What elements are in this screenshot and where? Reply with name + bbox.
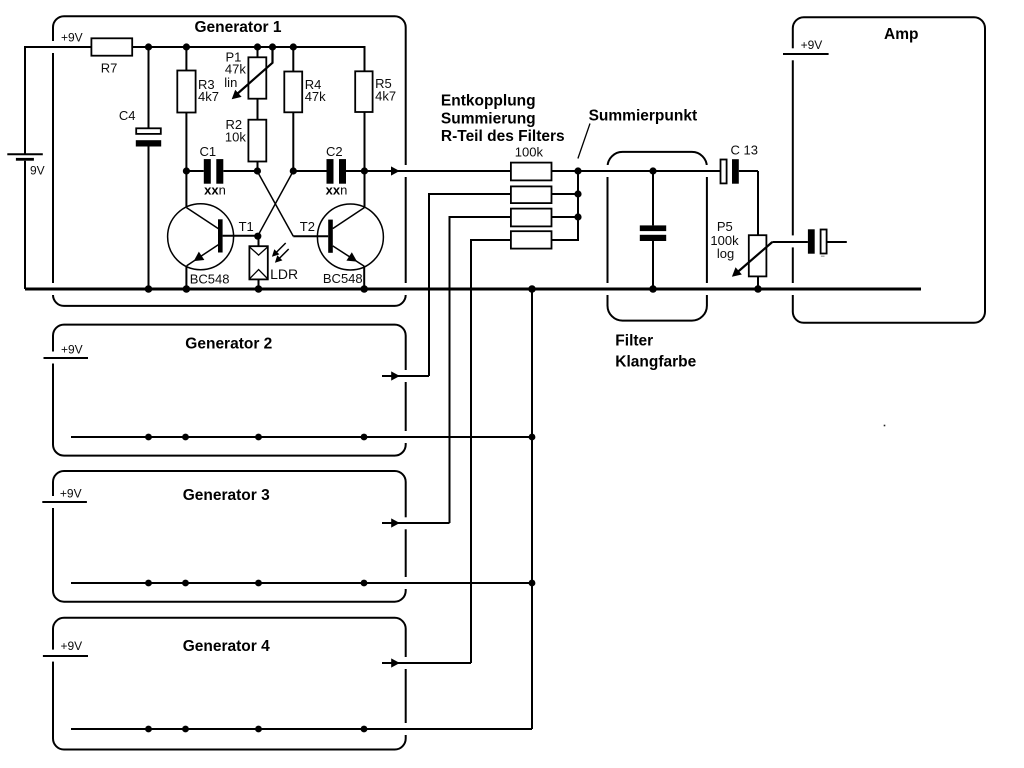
svg-text:R-Teil des Filters: R-Teil des Filters <box>441 128 565 145</box>
wire C2 to output node <box>346 170 511 172</box>
svg-text:BC548: BC548 <box>323 271 363 286</box>
svg-text:n: n <box>219 183 226 198</box>
wire battery negative to ground rail <box>24 161 26 289</box>
svg-text:Generator 4: Generator 4 <box>183 638 270 655</box>
wire generator 2 ground <box>71 436 532 438</box>
node dot filter top <box>649 167 656 174</box>
capacitor C13 <box>721 159 759 235</box>
wire common ground bus generators <box>531 289 533 729</box>
wire generator 4 to summing resistor 4 <box>471 240 511 663</box>
svg-text:R7: R7 <box>101 61 118 76</box>
light arrows into LDR <box>269 243 288 265</box>
wire generator 3 ground <box>71 582 532 584</box>
stray dot artifact <box>884 425 886 427</box>
wire summing resistor 3 to node <box>552 216 579 218</box>
svg-text:+9V: +9V <box>60 486 82 500</box>
svg-text:log: log <box>717 246 734 261</box>
transistor T2 <box>293 204 383 289</box>
wire generator 3 to summing resistor 3 <box>450 217 511 523</box>
svg-text:+9V: +9V <box>61 31 83 45</box>
wire +9V amp stub <box>783 53 829 55</box>
resistor summing 1 <box>511 163 552 181</box>
node dots generator 3 ground <box>145 580 535 587</box>
svg-text:100k: 100k <box>515 144 544 159</box>
svg-text:C1: C1 <box>200 144 217 159</box>
svg-text:10k: 10k <box>225 130 246 145</box>
wire generator 2 to summing resistor 2 <box>429 194 511 376</box>
svg-text:n: n <box>340 183 347 198</box>
potentiometer P5 <box>729 235 808 289</box>
svg-text:9V: 9V <box>30 164 45 178</box>
capacitor amp input <box>808 229 847 256</box>
svg-text:lin: lin <box>224 75 237 90</box>
svg-text:Generator 3: Generator 3 <box>183 487 270 504</box>
label Entkopplung Summierung R-Teil des Filters <box>441 93 565 146</box>
svg-text:xx: xx <box>204 183 219 198</box>
svg-text:LDR: LDR <box>270 266 298 282</box>
svg-text:Filter: Filter <box>615 333 653 350</box>
resistor R4 <box>284 47 302 171</box>
potentiometer P1 <box>229 47 273 103</box>
wire battery positive to +9V rail <box>25 47 91 154</box>
svg-text:4k7: 4k7 <box>375 88 396 103</box>
svg-text:47k: 47k <box>305 89 326 104</box>
capacitor filter <box>640 171 666 289</box>
wire generator 2 output <box>382 375 429 377</box>
resistor R2 <box>248 99 266 171</box>
wire +9V generator 4 stub <box>43 655 88 657</box>
wire top rail down to R5 <box>364 46 366 71</box>
node dots Summierpunkt <box>574 167 581 220</box>
svg-text:+9V: +9V <box>801 38 823 52</box>
resistor R7 <box>91 38 132 55</box>
svg-text:Summierpunkt: Summierpunkt <box>589 108 698 125</box>
svg-text:Amp: Amp <box>884 26 918 43</box>
box Filter <box>605 152 709 321</box>
wire cross coupling C1 node to T2 base <box>257 171 293 236</box>
capacitor C1 <box>204 159 224 184</box>
svg-text:T1: T1 <box>239 219 254 234</box>
svg-text:C2: C2 <box>326 144 343 159</box>
wire summing resistor 4 to node <box>552 171 579 240</box>
svg-text:Klangfarbe: Klangfarbe <box>615 353 696 370</box>
box Generator 1 <box>51 16 408 306</box>
svg-text:+9V: +9V <box>61 639 83 653</box>
wire generator 4 ground <box>71 728 532 730</box>
node dots generator 4 ground <box>145 726 367 733</box>
resistor R5 <box>355 71 372 207</box>
svg-text:Entkopplung: Entkopplung <box>441 93 536 110</box>
svg-text:Summierung: Summierung <box>441 110 536 127</box>
wire T1 base node to C2 <box>293 170 326 172</box>
box Generator 3 <box>51 471 408 602</box>
node dots ground rail <box>145 285 762 293</box>
battery 9V <box>7 154 43 160</box>
wire +9V generator 2 stub <box>44 357 89 359</box>
node dots generator 2 ground <box>145 434 535 441</box>
svg-text:+9V: +9V <box>61 342 83 356</box>
svg-text:T2: T2 <box>300 219 315 234</box>
node dots top rail <box>145 43 297 50</box>
label P5 100k log <box>710 219 739 261</box>
svg-text:BC548: BC548 <box>190 271 230 286</box>
svg-text:Generator 1: Generator 1 <box>195 19 282 36</box>
transistor T1 <box>168 204 258 289</box>
capacitor C4 <box>136 47 161 289</box>
arrow generator 3 output <box>391 518 400 527</box>
svg-text:xx: xx <box>326 183 341 198</box>
resistor R3 <box>177 47 195 208</box>
LDR <box>249 236 267 289</box>
wire C1 to T2 base node <box>223 170 257 172</box>
ground rail <box>25 288 921 291</box>
wire cross coupling C2 node to T1 base <box>258 171 294 236</box>
wire summing resistor 2 to node <box>552 193 579 195</box>
wire summing node to filter and C13 <box>552 170 721 172</box>
wire generator 3 output <box>382 522 450 524</box>
svg-text:C4: C4 <box>119 108 136 123</box>
svg-text:Generator 2: Generator 2 <box>185 336 272 353</box>
resistor summing 4 <box>511 231 552 248</box>
wire generator 4 output <box>382 662 471 664</box>
svg-text:4k7: 4k7 <box>198 89 219 104</box>
pointer line Summierpunkt <box>578 124 590 159</box>
node dots base wire <box>183 167 368 174</box>
box Generator 4 <box>51 618 408 750</box>
node dot T1 base LDR <box>254 233 261 240</box>
wire +9V top rail <box>132 46 364 48</box>
resistor summing 3 <box>511 209 552 227</box>
arrow generator 2 output <box>391 371 400 380</box>
arrow generator 4 output <box>391 658 400 667</box>
arrow generator 1 output <box>391 166 400 175</box>
capacitor C2 <box>327 159 347 184</box>
wire T1 collector node to C1 <box>186 170 203 172</box>
resistor summing 2 <box>511 186 552 203</box>
box Generator 2 <box>51 325 408 456</box>
box Amp <box>791 17 985 323</box>
wire +9V generator 3 stub <box>42 501 87 503</box>
svg-text:C 13: C 13 <box>731 143 758 158</box>
